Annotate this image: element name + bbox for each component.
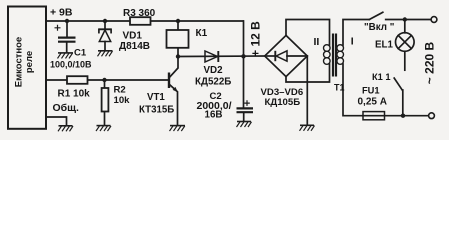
svg-text:R2: R2 xyxy=(114,84,126,95)
svg-text:R1 10k: R1 10k xyxy=(58,88,91,99)
svg-text:0,25 А: 0,25 А xyxy=(358,97,387,108)
svg-text:КД522Б: КД522Б xyxy=(195,77,231,88)
svg-text:VT1: VT1 xyxy=(147,92,165,103)
svg-text:+ 12 В: + 12 В xyxy=(249,21,263,57)
svg-text:+ 9В: + 9В xyxy=(50,7,73,19)
svg-text:Т1: Т1 xyxy=(334,83,345,93)
svg-text:II: II xyxy=(314,36,320,48)
svg-text:К1 1: К1 1 xyxy=(372,72,391,82)
svg-text:I: I xyxy=(351,35,354,47)
svg-text:C1: C1 xyxy=(74,48,87,59)
svg-text:10k: 10k xyxy=(114,95,131,106)
svg-text:Емкостное: Емкостное xyxy=(14,37,25,87)
svg-text:КТ315Б: КТ315Б xyxy=(139,105,174,116)
svg-text:R3 360: R3 360 xyxy=(123,8,156,19)
svg-text:16В: 16В xyxy=(205,110,223,121)
svg-text:100,0/10В: 100,0/10В xyxy=(50,60,92,70)
svg-text:FU1: FU1 xyxy=(362,85,380,95)
svg-text:реле: реле xyxy=(24,51,35,73)
svg-text:КД105Б: КД105Б xyxy=(265,97,301,108)
svg-text:К1: К1 xyxy=(196,28,208,39)
svg-text:~ 220 В: ~ 220 В xyxy=(423,41,437,84)
svg-text:"Вкл ": "Вкл " xyxy=(364,22,394,33)
svg-text:VD2: VD2 xyxy=(204,65,224,76)
svg-text:Общ.: Общ. xyxy=(53,102,80,114)
svg-text:Д814В: Д814В xyxy=(119,41,150,52)
svg-text:EL1: EL1 xyxy=(375,39,394,50)
